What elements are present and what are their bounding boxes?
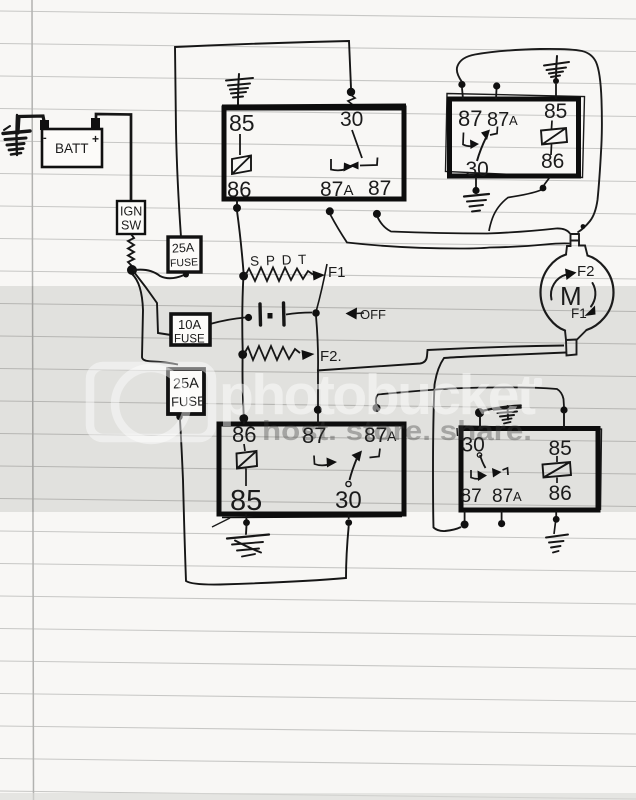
wire relay K3 pin 87 top node xyxy=(314,406,322,414)
svg-text:A: A xyxy=(509,113,518,128)
relay K1 (top left) xyxy=(222,105,406,203)
svg-text:FUSE: FUSE xyxy=(170,256,199,269)
wire relay K2 pin 86 to motor feed xyxy=(544,177,550,185)
svg-text:F1: F1 xyxy=(328,264,346,281)
svg-text:F2: F2 xyxy=(577,263,595,280)
svg-text:S P D T: S P D T xyxy=(250,252,308,269)
svg-text:85: 85 xyxy=(230,485,262,517)
switch SPDT label xyxy=(250,252,308,269)
fuse F3 25A xyxy=(168,369,206,414)
SPDT wiper to F1 contact (zigzag) xyxy=(239,272,248,281)
fuse F2 10A xyxy=(171,314,210,346)
relay K4 (bottom right) xyxy=(457,426,602,510)
wire relay K2 pin 30 stub to ground xyxy=(475,177,477,187)
svg-text:IGN: IGN xyxy=(120,205,142,219)
node at relay K1 pin 30 xyxy=(347,88,355,96)
svg-text:87: 87 xyxy=(458,106,482,131)
ground GND7 below relay K4 pin 86 xyxy=(546,535,568,553)
relay K2 (top right) xyxy=(446,94,585,182)
svg-text:86: 86 xyxy=(549,482,572,505)
wire battery negative to ground xyxy=(18,116,44,133)
svg-text:-: - xyxy=(43,132,47,144)
svg-text:30: 30 xyxy=(335,487,362,514)
svg-text:87: 87 xyxy=(368,177,391,200)
svg-text:SW: SW xyxy=(121,219,141,233)
ground GND2 above relay K1 pin 85 xyxy=(226,74,253,105)
ground GND4 below relay K2 pin 30 xyxy=(464,194,489,212)
ground GND6 at relay K4 pin 30 xyxy=(482,406,521,424)
wire junction J1 to fuse F1 xyxy=(134,270,184,279)
ground GND3 above relay K2 pin 85 xyxy=(544,56,569,79)
wire fuse F2 10A to OFF contact xyxy=(210,318,245,325)
wire OFF node to relay K3 pin 87 xyxy=(316,316,318,407)
svg-text:87: 87 xyxy=(320,178,343,201)
wire relay K4 pin 86 to ground xyxy=(555,511,557,516)
wire loop relay K2 pin 87 around to motor top xyxy=(457,49,602,233)
svg-text:photobucket: photobucket xyxy=(219,363,536,427)
svg-text:OFF: OFF xyxy=(360,307,386,322)
wire relay K3 pin 86 top node xyxy=(239,414,248,423)
wire relay K3 pin 85 to ground xyxy=(245,514,248,520)
svg-text:85: 85 xyxy=(549,437,572,460)
ground GND1 (battery negative) xyxy=(3,115,30,155)
wire relay K3 pin 87A to relay K4 pin 85 xyxy=(373,404,381,412)
svg-text:86: 86 xyxy=(227,177,251,202)
wire relay K4 pin 87 bottom node xyxy=(464,511,466,521)
wire relay K3 pin 30 down to fuse F3 xyxy=(348,514,350,519)
wire relay K1 pin 87A to motor top xyxy=(326,207,334,215)
wire relay K1 pin 86 stub xyxy=(236,199,238,205)
wire battery positive to ignition switch xyxy=(96,114,131,201)
wire relay K1 pin 87 to motor top xyxy=(373,210,381,218)
svg-text:87: 87 xyxy=(461,486,482,507)
SPDT wiper to F2 contact (zigzag) xyxy=(238,350,247,359)
motor M1 xyxy=(541,234,614,356)
wire SPDT common column (K1.86 to K3.86) xyxy=(237,211,244,417)
wire motor bottom to relay K4 pin 87 xyxy=(433,353,566,532)
wire relay K4 pin 85 node and stub xyxy=(560,406,567,413)
wire F1 contact to OFF node xyxy=(317,264,328,310)
wire junction J1 to fuse F3 25A xyxy=(132,274,178,365)
svg-text:85: 85 xyxy=(229,110,255,136)
fuse F1 25A xyxy=(168,237,201,272)
watermark overlay xyxy=(90,363,542,446)
ignition switch IGN SW xyxy=(117,201,145,234)
svg-text:86: 86 xyxy=(541,150,564,173)
svg-text:25A: 25A xyxy=(172,240,196,255)
wire junction J1 to fuse F2 10A xyxy=(134,272,171,335)
svg-text:10A: 10A xyxy=(178,317,201,332)
wire branch OFF column to motor top terminal xyxy=(317,346,564,371)
svg-text:30: 30 xyxy=(466,158,489,181)
svg-text:FUSE: FUSE xyxy=(174,334,205,346)
ground GND5 below relay K3 pin 85 xyxy=(227,525,269,557)
svg-text:85: 85 xyxy=(544,100,567,123)
svg-text:+: + xyxy=(92,132,99,146)
svg-text:A: A xyxy=(513,489,522,504)
wire relay K4 pin 87A bottom stub xyxy=(501,511,503,520)
wire ignition switch to junction (coiled) xyxy=(128,234,134,266)
label OFF with arrow xyxy=(346,308,358,320)
wire fuse F1 up and across to relay K1 pin 30 xyxy=(175,41,351,237)
svg-text:A: A xyxy=(344,182,354,199)
svg-text:30: 30 xyxy=(340,108,363,131)
wire relay K2 pin 85 to ground stub xyxy=(555,84,557,99)
wire relay K4 pin 30 node and stub xyxy=(475,408,484,417)
node J1 main feed junction xyxy=(127,265,137,275)
svg-text:BATT: BATT xyxy=(55,141,89,156)
battery BATT xyxy=(40,118,102,167)
wire relay K2 pin 87A top stub and node xyxy=(495,89,498,99)
svg-text:87: 87 xyxy=(492,486,513,507)
relay K3 (bottom left) xyxy=(212,422,404,527)
wire relay K2 pin 87 top stub and node xyxy=(462,88,463,99)
SPDT OFF contact plates xyxy=(258,304,262,325)
svg-text:F1: F1 xyxy=(571,306,587,321)
